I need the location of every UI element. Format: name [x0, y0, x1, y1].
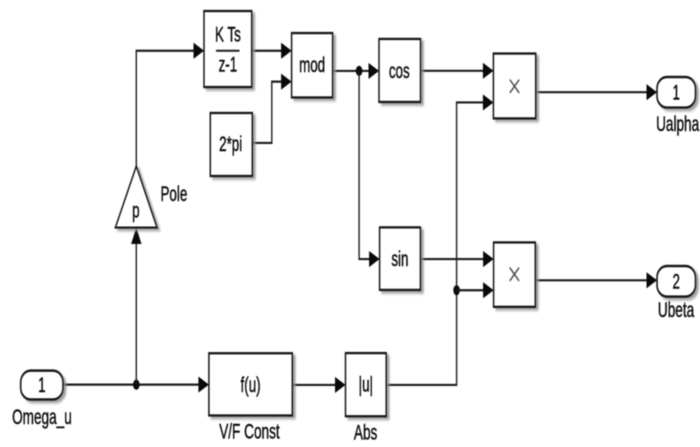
svg-text:Ualpha: Ualpha: [656, 112, 699, 136]
block Discrete-Time Integrator K Ts/(z-1): [204, 11, 252, 87]
wire: [333, 63, 379, 79]
svg-text:Abs: Abs: [354, 421, 378, 445]
block constant 2*pi: [210, 113, 252, 176]
svg-text:p: p: [132, 199, 139, 223]
node junction after mod: [356, 66, 363, 76]
wire: [252, 43, 292, 59]
wire: [136, 43, 204, 166]
block product X (upper): [493, 54, 535, 119]
wire: [131, 228, 141, 385]
gain Pole (triangle p): [115, 166, 157, 227]
svg-text:Pole: Pole: [161, 182, 188, 206]
label Ubeta: [658, 298, 694, 322]
block cos: [379, 39, 421, 102]
outport 2 Ubeta: [657, 266, 696, 297]
svg-text:mod: mod: [299, 53, 325, 77]
svg-text:f(u): f(u): [241, 373, 261, 397]
label V/F Const: [219, 419, 279, 443]
svg-text:Ubeta: Ubeta: [658, 298, 694, 322]
svg-text:V/F Const: V/F Const: [219, 419, 279, 443]
svg-text:1: 1: [38, 373, 45, 397]
wire: [359, 71, 380, 267]
wire: [292, 377, 345, 393]
label Ualpha: [656, 112, 699, 136]
svg-text:2: 2: [672, 269, 679, 293]
label Omega_u: [12, 405, 72, 430]
node junction on Omega_u wire: [133, 379, 140, 389]
label Pole: [161, 182, 188, 206]
label Abs: [354, 421, 378, 445]
wire: [457, 282, 494, 298]
block product X (lower): [494, 242, 536, 306]
wire: [535, 272, 657, 288]
outport 1 Ualpha: [657, 77, 696, 108]
wire: [421, 63, 494, 79]
inport 1 Omega_u: [21, 371, 63, 400]
block sin: [380, 227, 421, 290]
svg-text:sin: sin: [391, 247, 408, 271]
svg-text:2*pi: 2*pi: [219, 132, 242, 156]
wire: [386, 94, 493, 385]
svg-text:1: 1: [672, 80, 679, 104]
svg-text:z-1: z-1: [219, 53, 238, 77]
wire: [252, 74, 291, 143]
svg-text:Omega_u: Omega_u: [12, 405, 72, 430]
wire: [420, 251, 493, 267]
svg-text:|u|: |u|: [359, 373, 373, 397]
wire: [536, 84, 657, 100]
block mod: [292, 33, 333, 97]
node junction on Abs wire: [453, 285, 460, 295]
block Fcn f(u) V/F Const: [209, 353, 292, 415]
block Abs |u|: [346, 353, 387, 416]
wire: [63, 377, 209, 393]
svg-text:K Ts: K Ts: [215, 22, 241, 46]
svg-text:cos: cos: [389, 59, 410, 83]
